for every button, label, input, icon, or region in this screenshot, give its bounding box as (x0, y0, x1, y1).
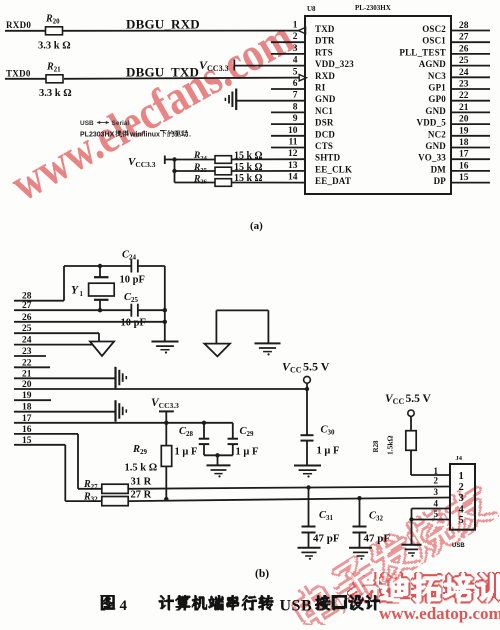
wire bus 23 stub (14, 355, 46, 357)
svg-text:2: 2 (434, 476, 439, 486)
svg-text:EE_DAT: EE_DAT (315, 176, 351, 186)
wire pin22 stub (451, 100, 490, 102)
svg-text:RI: RI (315, 83, 326, 93)
junction R25 (172, 169, 176, 173)
wire VCC3.3 to R29 (165, 423, 167, 446)
wire bus 22 stub (14, 366, 50, 368)
wire bus 27 through C25 (14, 309, 131, 311)
svg-text:CTS: CTS (315, 141, 333, 151)
wire R29 to DP wire (165, 466, 167, 499)
svg-text:NC1: NC1 (315, 106, 333, 116)
svg-text:DBGU_RXD: DBGU_RXD (126, 17, 200, 32)
svg-text:3.3 k Ω: 3.3 k Ω (39, 88, 72, 99)
wire pin9 stub (271, 123, 305, 125)
svg-text:8: 8 (293, 102, 298, 112)
svg-text:17: 17 (459, 150, 469, 160)
svg-text:OSC2: OSC2 (422, 24, 446, 34)
svg-text:GP0: GP0 (428, 94, 446, 104)
wire pin19 stub (451, 135, 490, 137)
svg-text:Y: Y (71, 285, 79, 297)
wire pin2 stub (271, 41, 305, 43)
svg-text:GND: GND (425, 106, 446, 116)
wire bus 21 (14, 377, 115, 379)
capacitor C29 (232, 423, 234, 439)
capacitor C24 (130, 260, 132, 273)
wire ground to pin7 (236, 100, 305, 102)
wire USB pin5 (412, 519, 451, 521)
svg-text:1 μ F: 1 μ F (236, 447, 259, 458)
watermark dianzifashaoyou diagonal (286, 479, 499, 630)
ground pin21 (114, 367, 116, 389)
svg-text:3: 3 (293, 44, 298, 54)
wire R28 to USB pin1 (410, 450, 412, 475)
ground C30 (294, 465, 321, 467)
svg-text:4: 4 (120, 598, 128, 614)
junction USB pin45 (409, 517, 413, 521)
wire bus 20 VDD5 (14, 388, 307, 390)
wire pin6 stub (271, 88, 305, 90)
svg-text:USB: USB (280, 598, 313, 615)
wire pin27 stub (451, 41, 490, 43)
wire DM to USB pin2 (128, 487, 450, 489)
wire to R25 (175, 170, 216, 172)
ground USB (402, 544, 422, 546)
svg-text:3: 3 (434, 487, 439, 497)
wire bus 24 (14, 344, 97, 346)
svg-text:www.edatop.com: www.edatop.com (379, 604, 500, 623)
svg-text:10: 10 (288, 126, 298, 136)
wire pin3 stub (271, 53, 305, 55)
wire R25 to pin13 (232, 170, 306, 172)
caption figure 4 (100, 595, 115, 610)
svg-text:EE_CLK: EE_CLK (315, 164, 352, 174)
wire OSC right rail (164, 266, 166, 342)
svg-text:GND: GND (425, 141, 446, 151)
svg-text:24: 24 (459, 68, 469, 78)
svg-text:7: 7 (293, 91, 298, 101)
crystal Y1 (99, 266, 101, 277)
wire USB pin4 (412, 508, 451, 510)
resistor R21 (46, 75, 63, 83)
svg-text:USB: USB (80, 120, 94, 127)
ground C32 (349, 547, 372, 549)
svg-text:3: 3 (459, 493, 464, 504)
svg-text:5.5 V: 5.5 V (303, 360, 330, 374)
resistor R29 (161, 446, 171, 467)
svg-text:19: 19 (459, 126, 469, 136)
wire pin17 stub (451, 158, 490, 160)
svg-text:11: 11 (289, 138, 298, 148)
svg-text:PL-2303HX: PL-2303HX (355, 4, 391, 12)
wire DP to USB pin3 (128, 498, 450, 502)
svg-text:1 μ F: 1 μ F (175, 447, 198, 458)
svg-text:27: 27 (459, 33, 469, 43)
svg-text:6: 6 (293, 79, 298, 89)
wire pin23 stub (451, 88, 490, 90)
capacitor C32 (359, 498, 361, 526)
svg-text:1: 1 (80, 290, 84, 298)
pin 1 arrow (298, 27, 305, 33)
svg-text:14: 14 (288, 173, 298, 183)
wire C28 C29 common (204, 454, 233, 456)
svg-text:U8: U8 (307, 5, 316, 13)
wire VCC to R28 (410, 416, 412, 430)
wire pin28 stub (451, 30, 490, 32)
junction C28 (202, 421, 206, 425)
svg-text:5: 5 (459, 515, 464, 526)
svg-text:3.3 k Ω: 3.3 k Ω (38, 41, 71, 52)
svg-text:PLL_TEST: PLL_TEST (399, 47, 446, 57)
svg-text:R28: R28 (372, 440, 380, 453)
svg-text:1.5kΩ: 1.5kΩ (386, 435, 395, 455)
wire R21 to pin5 DBGU_TXD (64, 78, 300, 79)
svg-text:AGND: AGND (419, 59, 447, 69)
ground link bridge wire (216, 309, 268, 311)
wire pin11 stub (271, 147, 305, 149)
wire pin10 stub (271, 135, 305, 137)
op chip U8 PL-2303HX body (305, 16, 451, 194)
svg-text:16: 16 (459, 161, 469, 171)
wire bus 16 to R27 (14, 433, 78, 435)
svg-text:5: 5 (293, 67, 298, 77)
wire bus 26 (14, 321, 165, 323)
svg-text:1: 1 (459, 471, 464, 482)
wire pin26 stub (451, 53, 490, 55)
junction VCC3.3 rail (164, 421, 168, 425)
connector J4 body (450, 464, 475, 530)
svg-text:2: 2 (459, 482, 464, 493)
wire RXD0 to R20 (5, 30, 46, 32)
wire pin24 stub (451, 76, 490, 78)
ground C28 C29 (207, 464, 231, 466)
resistor R27 (102, 484, 128, 493)
resistor R20 (46, 27, 63, 35)
svg-text:12: 12 (288, 149, 298, 159)
resistor R32 (102, 497, 128, 506)
svg-text:GP1: GP1 (428, 83, 446, 93)
resistor R24 (215, 156, 232, 164)
svg-text:win/linux: win/linux (129, 132, 160, 139)
svg-text:5: 5 (434, 509, 439, 519)
wire USB ground (411, 520, 413, 545)
wire VCC3.3 to pin4 (234, 65, 305, 67)
svg-text:RXD0: RXD0 (6, 20, 31, 30)
watermark yiditu training (347, 572, 500, 604)
wire pin15 stub (451, 182, 490, 184)
capacitor C31 (308, 488, 310, 527)
svg-text:47 pF: 47 pF (313, 533, 340, 545)
svg-text:TXD: TXD (315, 24, 335, 34)
svg-text:(a): (a) (250, 220, 263, 232)
ground C31 (298, 547, 321, 549)
svg-text:1 μ F: 1 μ F (317, 446, 340, 457)
svg-text:DSR: DSR (315, 118, 334, 128)
svg-text:VO_33: VO_33 (418, 153, 446, 163)
svg-text:RXD: RXD (315, 71, 335, 81)
wire R24 to pin12 (232, 158, 306, 160)
ground AGND triangle (90, 342, 114, 357)
svg-text:VDD_323: VDD_323 (315, 59, 354, 69)
pin 5 arrow (299, 75, 306, 81)
wire to ground C28 C29 (217, 455, 219, 465)
svg-text:21: 21 (459, 103, 469, 113)
resistor R26 (215, 179, 232, 187)
svg-text:4: 4 (434, 499, 439, 509)
svg-text:20: 20 (459, 115, 469, 125)
svg-text:J4: J4 (456, 455, 463, 462)
svg-text:OSC1: OSC1 (422, 36, 446, 46)
junction C31 (306, 485, 310, 489)
svg-text:DCD: DCD (315, 129, 335, 139)
svg-text:31 R: 31 R (131, 477, 152, 488)
svg-text:27 R: 27 R (131, 490, 152, 501)
wire bus 25 to AGND (14, 332, 99, 334)
svg-text:28: 28 (459, 21, 469, 31)
svg-text:15: 15 (459, 173, 469, 183)
svg-text:5.5 V: 5.5 V (406, 393, 432, 405)
wire crystal top (64, 265, 131, 267)
wire R20 to pin1 DBGU_RXD (63, 30, 300, 32)
svg-text:4: 4 (459, 504, 465, 515)
svg-text:47 pF: 47 pF (364, 533, 391, 545)
svg-text:22: 22 (459, 91, 469, 101)
svg-text:Serial: Serial (112, 120, 130, 127)
wire to R24 (175, 159, 216, 161)
wire bus 19 stub (14, 399, 51, 401)
wire VDD5 to C30 (306, 389, 308, 435)
junction C28 C29 ground (215, 453, 219, 457)
junction crystal bottom (98, 308, 102, 312)
wire pullup rail (174, 159, 176, 183)
svg-text:VDD_5: VDD_5 (417, 118, 447, 128)
svg-text:1.5 k Ω: 1.5 k Ω (125, 463, 158, 474)
svg-text:DP: DP (434, 176, 447, 186)
wire pin16 stub (451, 170, 490, 172)
svg-text:23: 23 (459, 80, 469, 90)
svg-text:26: 26 (459, 44, 469, 54)
svg-text:9: 9 (293, 114, 298, 124)
svg-text:1: 1 (434, 466, 439, 476)
wire pin18 stub (451, 147, 490, 149)
ground link triangle (204, 344, 230, 357)
ground link bars (255, 342, 281, 344)
ground pin7 (235, 89, 237, 111)
svg-text:1: 1 (293, 21, 298, 31)
junction R24 (172, 157, 176, 161)
svg-text:DM: DM (431, 164, 447, 174)
wire pin21 stub (451, 111, 490, 113)
capacitor C30 (301, 434, 314, 436)
wire R26 to pin14 (232, 182, 306, 184)
wire pin8 stub (271, 111, 305, 113)
svg-text:GND: GND (315, 94, 336, 104)
wire TXD0 to R21 (5, 78, 46, 80)
junction VDD5 (305, 387, 309, 391)
svg-text:NC2: NC2 (428, 129, 446, 139)
resistor R28 (406, 431, 416, 451)
svg-text:DTR: DTR (315, 36, 335, 46)
svg-text:SHTD: SHTD (315, 153, 341, 163)
svg-text:18: 18 (459, 138, 469, 148)
junction rail pin26 (163, 320, 167, 324)
svg-text:RTS: RTS (315, 47, 333, 57)
wire bus 18 (14, 411, 115, 413)
svg-text:NC3: NC3 (428, 71, 446, 81)
junction C32 (357, 496, 361, 500)
svg-text:10 pF: 10 pF (121, 318, 146, 329)
svg-text:4: 4 (293, 56, 298, 66)
resistor R25 (215, 167, 232, 175)
capacitor C28 (203, 423, 205, 439)
svg-text:10 pF: 10 pF (120, 275, 145, 286)
svg-text:DBGU_TXD: DBGU_TXD (126, 65, 199, 80)
junction crystal top (98, 264, 102, 268)
svg-text:13: 13 (288, 161, 298, 171)
junction OSC rail C25 (163, 308, 167, 312)
svg-text:TXD0: TXD0 (6, 69, 31, 79)
svg-text:.: . (189, 132, 191, 139)
ground pin18 (114, 400, 116, 422)
capacitor C25 (130, 304, 132, 317)
svg-text:PL2303HX: PL2303HX (80, 132, 115, 139)
svg-text:USB: USB (452, 543, 465, 549)
svg-text:2: 2 (293, 32, 298, 42)
wire bus 15 to R32 (14, 444, 65, 446)
wire to R26 (175, 182, 216, 184)
wire bus 17 VO33 rail (14, 422, 233, 424)
wire C30 to ground (306, 441, 308, 466)
ground OSC rail (152, 341, 179, 343)
junction R29 DP (164, 497, 168, 501)
svg-text:25: 25 (459, 56, 469, 66)
wire pin25 stub (451, 65, 490, 67)
svg-text:(b): (b) (255, 568, 269, 580)
wire pin20 stub (451, 123, 490, 125)
wire bus 28 to crystal (14, 300, 64, 302)
